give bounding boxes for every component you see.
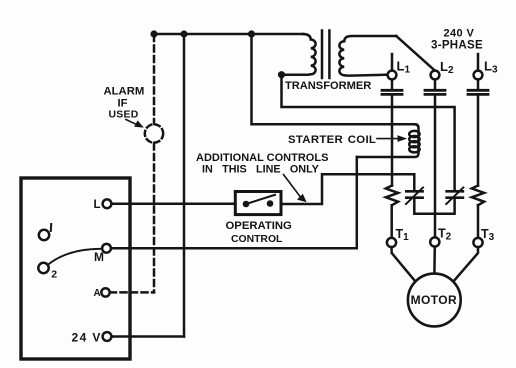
terminal 24V circle [103, 332, 112, 341]
starter contact right [447, 190, 463, 193]
alarm label arrow [126, 120, 138, 126]
wire dashed alarm riser upper [153, 35, 156, 124]
wire T2 to motor [433, 247, 436, 274]
wire L2 line down [434, 96, 437, 238]
svg-text:OPERATING: OPERATING [226, 220, 293, 232]
terminal L circle [103, 199, 112, 208]
motor circle [408, 274, 461, 327]
terminal A circle [101, 288, 109, 296]
fuse L3 [477, 80, 480, 90]
wire 24V riser [183, 34, 186, 337]
wire L3 line down [477, 96, 480, 186]
wire T1 to motor [392, 247, 416, 281]
svg-text:IN THIS LINE ONLY: IN THIS LINE ONLY [202, 164, 320, 176]
arrowhead additional controls [297, 194, 307, 202]
thermostat contact 1 circle [39, 230, 49, 240]
terminal L1 circle [388, 71, 397, 80]
wire T3 to motor [454, 247, 478, 281]
svg-text:USED: USED [109, 110, 139, 121]
wire L1 line down [391, 96, 394, 186]
svg-text:A: A [94, 288, 101, 299]
wire M terminal to coil [111, 157, 357, 248]
wire top rail 24V common [154, 33, 303, 36]
svg-text:TRANSFORMER: TRANSFORMER [285, 80, 371, 92]
svg-text:STARTER COIL: STARTER COIL [288, 134, 376, 146]
overload heater L1 (zigzag) [386, 186, 398, 206]
overload heater L3 (zigzag) [472, 186, 484, 206]
operating control right contact dot [267, 200, 274, 207]
wire 24V terminal lead [111, 335, 184, 338]
starter coil label arrow [377, 138, 398, 140]
svg-text:240 V: 240 V [444, 28, 475, 40]
additional controls arrow [284, 175, 301, 197]
svg-text:24 V: 24 V [72, 331, 102, 345]
svg-text:ALARM: ALARM [104, 86, 145, 98]
thermostat switch arm 2-M [48, 249, 103, 265]
svg-text:M: M [94, 250, 104, 264]
node transformer secondary bottom [278, 71, 285, 78]
node rail-coil junction [248, 30, 255, 37]
terminal L3 circle [474, 71, 483, 80]
svg-text:L: L [94, 199, 101, 211]
node rail-alarm junction [150, 30, 157, 37]
operating control left contact dot [243, 201, 250, 208]
terminal T3 circle [473, 238, 482, 247]
terminal T2 circle [430, 237, 439, 246]
thermostat box [21, 178, 130, 359]
svg-text:2: 2 [51, 269, 57, 281]
terminal T1 circle [387, 238, 396, 247]
thermostat contact 2 circle [38, 263, 48, 273]
arrowhead starter coil [398, 135, 408, 142]
transformer core [321, 31, 324, 79]
wire dashed alarm riser lower [153, 144, 156, 293]
wire dashed A terminal lead [110, 291, 154, 294]
wire operating control to left contact [281, 174, 414, 204]
wire primary diagonal to L2 [396, 36, 434, 70]
transformer primary coil (right) [339, 36, 396, 76]
fuse L2 [434, 80, 437, 90]
terminal L1 supply stub [391, 54, 394, 71]
svg-text:IF: IF [118, 98, 128, 110]
svg-text:3-PHASE: 3-PHASE [431, 40, 483, 52]
starter contact left [406, 190, 422, 193]
svg-text:CONTROL: CONTROL [231, 234, 283, 245]
arrowhead alarm [134, 120, 144, 127]
wire L3 to T3 [477, 205, 480, 238]
wire contact bottoms link [414, 199, 454, 214]
wire L terminal to operating control [112, 203, 236, 206]
svg-text:MOTOR: MOTOR [411, 293, 457, 307]
starter coil M [357, 124, 419, 157]
transformer T1 secondary coil (left) [282, 34, 316, 75]
tick label 1 [50, 224, 52, 231]
terminal M circle [102, 244, 111, 253]
fuse L1 [391, 80, 394, 90]
node rail-24V junction [180, 30, 187, 37]
wire starter-coil feed riser [252, 34, 416, 124]
wire L1 to T1 [390, 205, 393, 238]
wire secondary-bottom to right contact [282, 75, 455, 190]
operating control switch arm [246, 195, 275, 204]
svg-text:ADDITIONAL CONTROLS: ADDITIONAL CONTROLS [196, 152, 328, 164]
operating control box [235, 192, 281, 215]
alarm bell (dashed circle) [145, 124, 163, 142]
terminal L2 circle [431, 71, 440, 80]
terminal L3 supply stub [477, 54, 480, 71]
